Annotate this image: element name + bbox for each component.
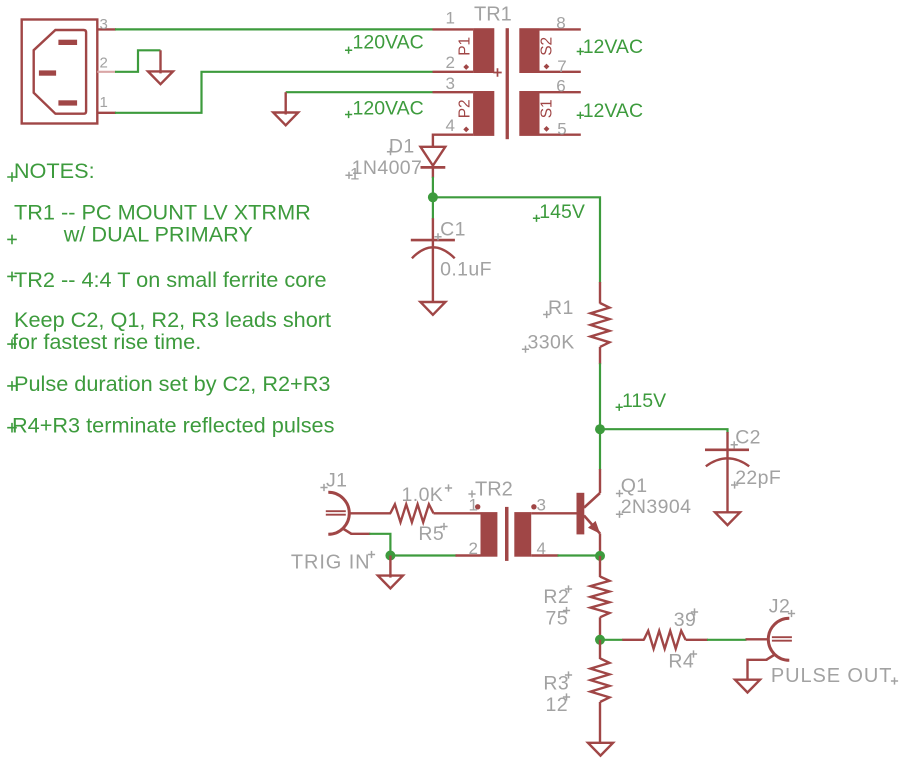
origin cross 22pF [731,481,738,488]
ground at J1 [378,556,403,589]
label 330K [528,332,575,354]
label Q1 [621,475,648,497]
svg-text:R3: R3 [543,673,569,695]
wire IEC pin1 to TR1 pin2 [115,72,433,113]
pin label 6 [556,77,565,96]
svg-text:4: 4 [446,116,455,135]
origin cross 12VAC lower [577,112,584,119]
TR2 polarity dot pin3 [531,504,536,509]
pin label 2 [446,53,455,72]
junction dot [428,192,438,202]
sheet label 1 [350,165,359,184]
wire J2 sleeve to ground [748,660,768,681]
TR1 core [506,28,509,139]
svg-text:PULSE OUT: PULSE OUT [771,665,892,687]
svg-text:TR2: TR2 [475,479,513,501]
svg-text:1.0K: 1.0K [402,484,444,506]
svg-text:330K: 330K [528,332,575,354]
wire R1 to node 115V [599,363,601,429]
origin cross 2N3904 [616,511,623,518]
TR1 pin 2 line [433,71,474,73]
wire R5 to TR2 pin1 [434,512,481,514]
svg-text:R1: R1 [548,297,574,319]
origin cross 12VAC upper [577,48,584,55]
TR1 winding P1 [473,28,494,73]
note text line 6 [12,329,201,354]
note origin cross [7,172,17,182]
pin label 1 [100,94,108,111]
label J1 [326,470,347,492]
svg-text:0.1uF: 0.1uF [440,259,492,281]
origin cross C1 [434,233,441,240]
resistor R4 [644,631,686,649]
connector X1 IEC power inlet body [22,20,98,124]
TR1 pin 6 line [540,91,581,93]
origin cross 145V [533,215,540,222]
label 0.1uF [440,259,492,281]
label 22pF [735,467,781,489]
TR1 polarity dot pin5 [544,126,550,132]
svg-text:S2: S2 [539,37,556,56]
svg-text:7: 7 [557,57,566,76]
svg-text:2: 2 [100,54,108,71]
svg-text:22pF: 22pF [735,467,781,489]
label R4 [668,651,694,673]
origin cross R4 [690,650,697,657]
TR1 pin 3 line [433,91,474,93]
svg-text:NOTES:: NOTES: [14,158,95,183]
net label 145V [539,201,585,223]
label 1N4007 [352,157,423,179]
wire TR2 pin3 to Q1 base [531,512,576,514]
pin label 4 [537,539,546,558]
svg-text:TR2 -- 4:4 T on small ferrite: TR2 -- 4:4 T on small ferrite core [14,267,327,292]
pin label 8 [556,14,565,33]
svg-text:120VAC: 120VAC [353,98,424,120]
connector J1 [326,492,352,534]
note text line 4 [14,267,327,292]
svg-text:120VAC: 120VAC [353,32,424,54]
origin cross PULSE OUT [891,677,898,684]
note origin cross [7,339,17,349]
TR1 winding label S1 [539,99,556,118]
resistor R3 [591,640,610,743]
transformer TR1 name [474,3,512,25]
wire TR1 pin3 to ground [286,91,433,93]
svg-text:115V: 115V [622,390,666,412]
origin cross R5 [440,523,447,530]
origin cross 120VAC upper [345,47,352,54]
TR2 pin 4 line [531,554,558,556]
label PULSE OUT [771,665,892,687]
svg-text:for fastest rise time.: for fastest rise time. [12,329,201,354]
origin cross 115V [616,404,623,411]
svg-text:6: 6 [556,77,565,96]
wire TR2 pin4 to emitter node [558,554,601,556]
TR2 core [505,507,509,561]
TR1 polarity dot pin4 [463,127,469,133]
TR1 pin 8 line [540,28,581,30]
junction dot [595,635,605,645]
svg-text:R4+R3 terminate reflected puls: R4+R3 terminate reflected pulses [12,413,335,438]
origin cross R2 [565,585,572,592]
label C1 [440,219,466,241]
transistor Q1 [577,469,601,552]
capacitor C2 [705,432,749,513]
origin cross J1 [320,484,327,491]
pin label 7 [557,57,566,76]
pin label 1 [446,9,455,28]
label R3 [543,673,569,695]
svg-text:P1: P1 [457,37,474,56]
TR1 polarity dot pin7 [544,64,550,70]
svg-text:3: 3 [100,16,108,33]
svg-text:3: 3 [446,74,455,93]
svg-text:Q1: Q1 [621,475,648,497]
resistor R1 [591,282,610,364]
ground at R3 [588,743,613,756]
svg-text:8: 8 [556,14,565,33]
TR2 winding right [514,512,531,557]
TR1 polarity dot pin2 [463,64,469,70]
TR1 pin 4 line [433,135,473,147]
origin cross J2 [788,610,795,617]
TR2 polarity dot pin1 [475,504,480,509]
wire node to C2 [600,429,728,433]
svg-text:TRIG IN: TRIG IN [291,552,371,574]
TR2 winding left [481,512,498,557]
net label 115V [622,390,666,412]
pin label 3 [100,16,108,33]
svg-text:1: 1 [350,165,359,184]
wire node to R4 [600,639,623,641]
TR1 winding label P2 [457,99,474,118]
svg-text:145V: 145V [539,201,585,223]
svg-text:2: 2 [469,539,478,558]
wire node to R1 [433,197,600,282]
svg-text:1N4007: 1N4007 [352,157,423,179]
IEC pin 2 stub [97,71,116,73]
resistor R2 [591,556,610,640]
svg-text:2N3904: 2N3904 [621,496,692,518]
svg-text:2: 2 [446,53,455,72]
net label 12VAC upper [583,36,643,58]
wire node to Q1 collector [599,429,601,470]
svg-text:J1: J1 [326,470,347,492]
svg-text:1: 1 [446,9,455,28]
label 75 [546,607,569,629]
svg-text:5: 5 [557,119,566,138]
svg-text:S1: S1 [539,99,556,118]
net label 120VAC upper [353,32,424,54]
label 1.0K [402,484,444,506]
TR1 pin 7 line [540,71,581,73]
svg-text:C1: C1 [440,219,466,241]
note text line 2 [14,200,311,225]
origin cross D1 [387,148,394,155]
TR1 winding S2 [519,28,539,73]
capacitor C1 [411,218,455,302]
note origin cross [7,235,17,245]
TR1 winding label S2 [539,37,556,56]
junction dot [595,424,605,434]
junction dot [385,551,395,561]
pin label 5 [557,119,566,138]
note text line 3 [63,221,253,246]
origin cross 39 [691,608,698,615]
svg-text:3: 3 [537,496,546,515]
note origin cross [7,423,17,433]
TR1 pin 1 line [433,28,474,30]
IEC pin 1 stub [97,112,116,114]
note text line 7 [14,371,330,396]
svg-text:D1: D1 [389,135,415,157]
svg-text:12VAC: 12VAC [583,36,643,58]
wire J1 sleeve to ground node [351,534,457,556]
origin cross 1N4007 [345,172,352,179]
label 12 [546,694,569,716]
origin cross 330K [522,346,529,353]
wire IEC pin2 to ground [115,50,161,72]
svg-text:TR1: TR1 [474,3,512,25]
pin label 1 [469,496,478,515]
origin cross TRIG IN [368,551,375,558]
pin label 2 [469,539,478,558]
svg-text:P2: P2 [457,99,474,118]
svg-text:1: 1 [100,94,108,111]
wire J2 tip lead [746,638,769,640]
note origin cross [7,381,17,391]
origin cross 1.0K [445,484,452,491]
pin label 4 [446,116,455,135]
pin label 3 [446,74,455,93]
origin cross 120VAC lower [345,111,352,118]
svg-text:R5: R5 [418,523,444,545]
TR1 winding S1 [519,91,539,136]
svg-text:12VAC: 12VAC [583,100,643,122]
label 2N3904 [621,496,692,518]
transformer TR2 name [475,479,513,501]
label R2 [543,586,569,608]
note origin cross [7,272,17,282]
label R5 [418,523,444,545]
pin label 3 [537,496,546,515]
label TRIG IN [291,552,371,574]
wire node to C1 [432,197,434,219]
label D1 [389,135,415,157]
origin cross C2 [731,441,738,448]
ground at IEC pin2 [148,50,173,84]
svg-text:1: 1 [469,496,478,515]
net label 120VAC lower [353,98,424,120]
wire R4 to J2 [707,639,747,641]
origin cross R1 [543,311,550,318]
svg-text:C2: C2 [735,427,761,449]
label C2 [735,427,761,449]
TR1 winding label P1 [457,37,474,56]
label 39 [674,609,697,631]
svg-text:J2: J2 [769,596,790,618]
note text line 5 [14,307,331,332]
origin cross TR2 [468,490,475,497]
wire R4 left lead [622,639,644,641]
wire IEC pin3 to TR1 pin1 [115,28,433,30]
ground at TR1 pin3 [273,92,298,125]
ground at C2 [715,512,740,525]
wire D1 to node 145V [432,177,434,198]
origin cross Q1 [616,490,623,497]
net label 12VAC lower [583,100,643,122]
IEC pin 3 stub [97,28,116,30]
origin cross 75 [563,607,570,614]
note text line 8 [12,413,335,438]
resistor R5 [390,504,433,522]
wire R4 right lead [686,639,708,641]
ground at J2 [735,680,760,693]
ground at C1 [420,302,445,315]
TR1 winding P2 [473,91,494,136]
origin cross 12 [563,693,570,700]
connector J2 [766,618,792,660]
label R1 [548,297,574,319]
diode D1 [421,147,446,178]
svg-text:w/ DUAL PRIMARY: w/ DUAL PRIMARY [63,221,253,246]
svg-text:Pulse duration set by C2, R2+R: Pulse duration set by C2, R2+R3 [14,371,330,396]
label J2 [769,596,790,618]
TR1 pin 5 line [540,133,581,135]
pin label 2 [100,54,108,71]
origin cross R3 [565,671,572,678]
wire J1 tip to R5 [349,512,391,514]
junction dot [595,551,605,561]
TR1 origin cross [493,68,501,76]
note text line 1 [14,158,95,183]
TR2 pin 2 line [456,554,481,556]
